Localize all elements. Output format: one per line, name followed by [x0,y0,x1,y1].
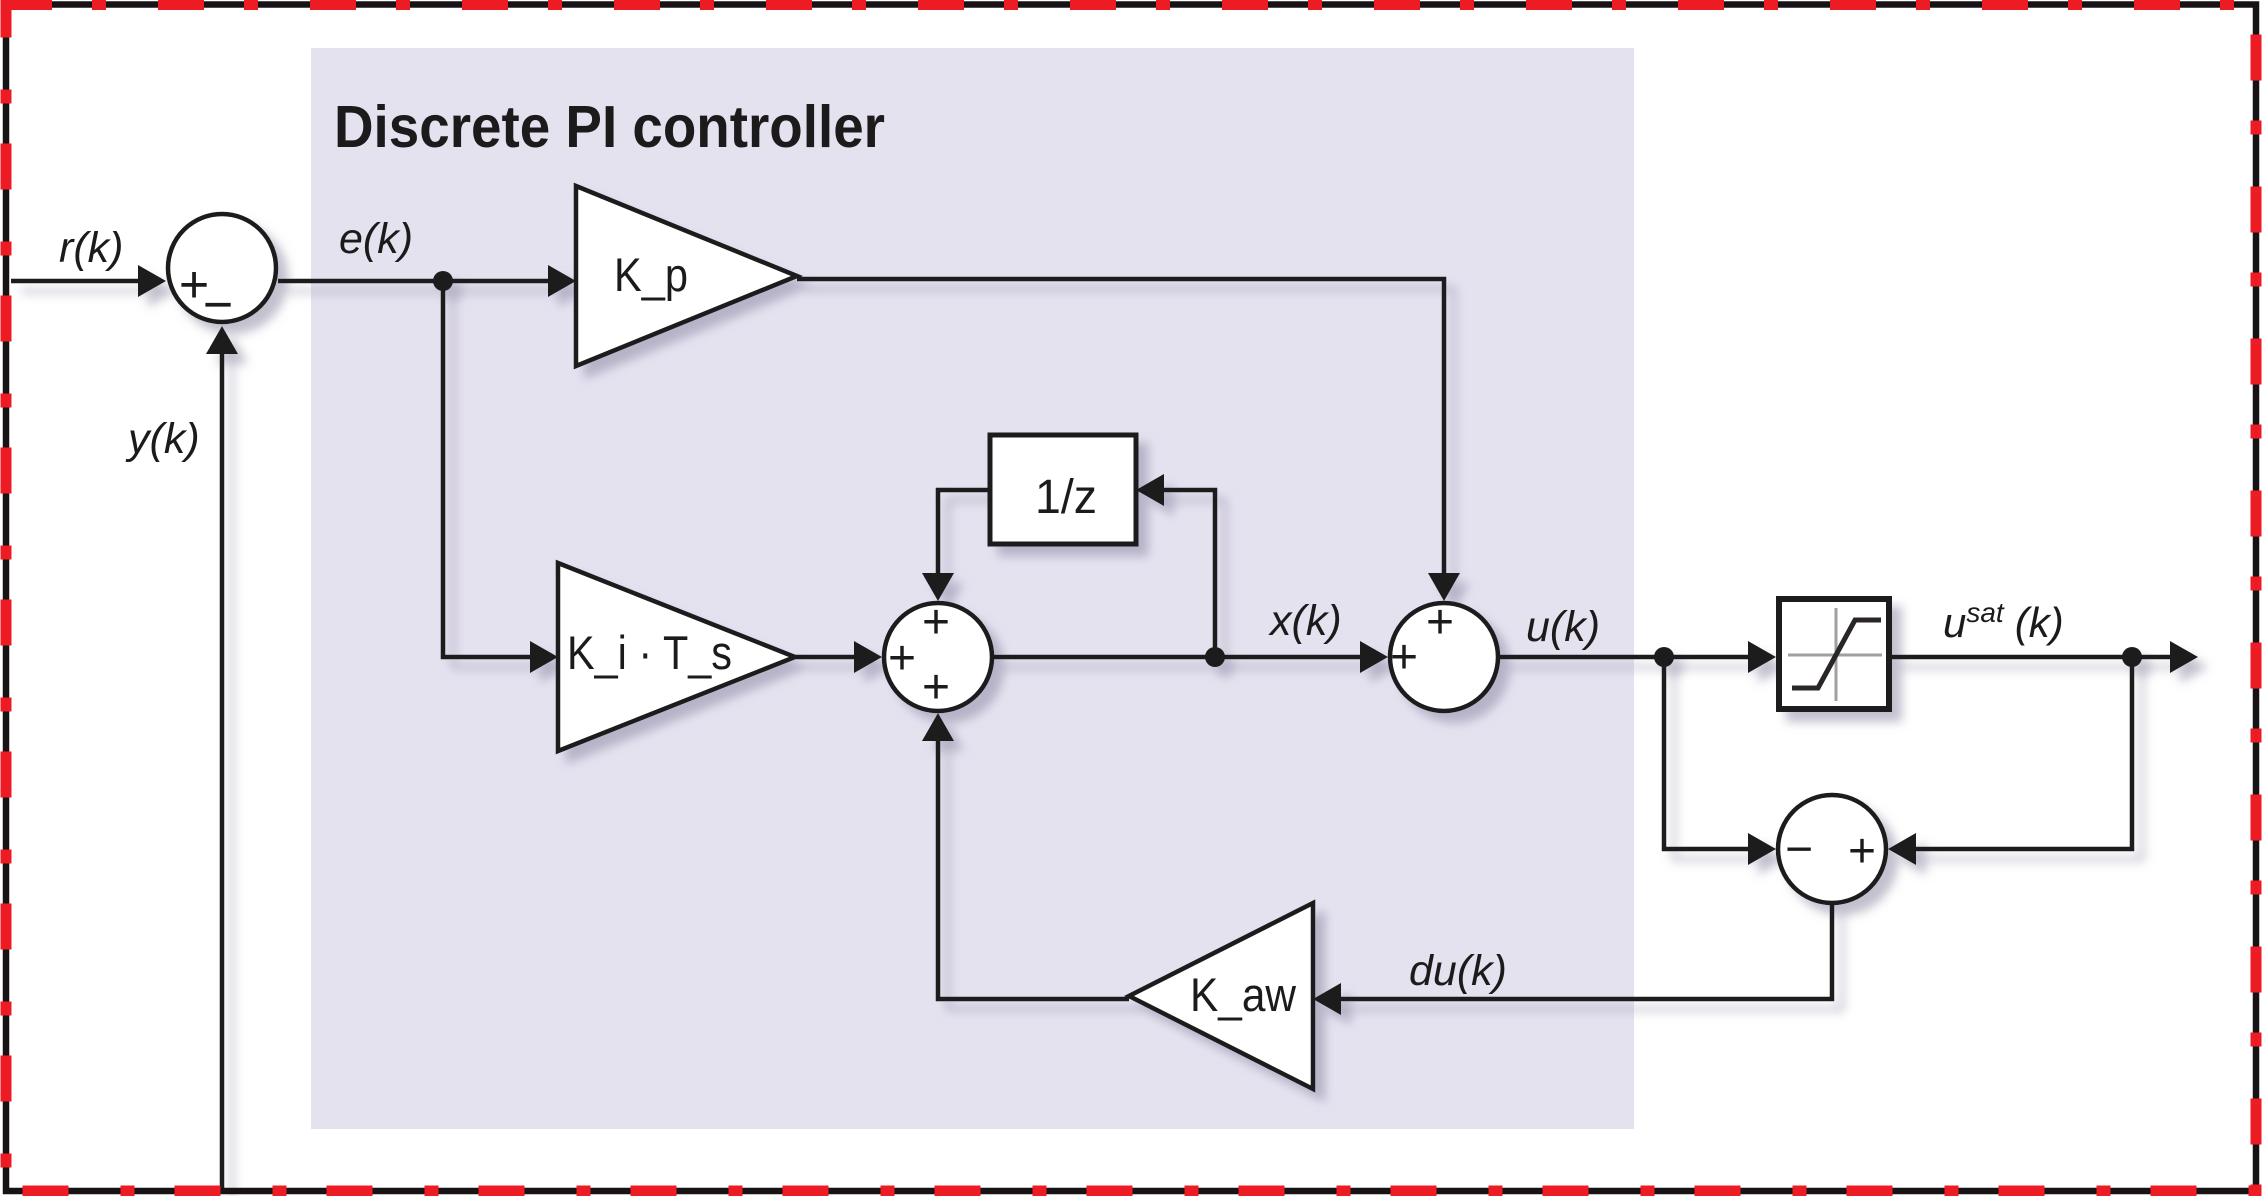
svg-text:e(k): e(k) [339,215,413,263]
wire u(k) from sum S3 to saturation [1498,655,1750,660]
node x(k) junction [1205,647,1225,667]
wire K_i output to sum S2 [795,655,854,660]
wire saturation output usat(k) [1890,655,2170,660]
svg-text:1/z: 1/z [1035,471,1097,524]
wire K_aw output to sum S2 bottom [938,741,1129,999]
svg-text:K_aw: K_aw [1190,968,1297,1021]
wire x(k) from sum S2 to sum S3 [994,655,1360,660]
wire e(k) branch down to K_i [443,281,530,657]
wire y(k) feedback [220,354,225,1188]
saturation block [1779,599,1889,709]
controller panel (lavender) [311,48,1634,1129]
wire r(k) input [11,279,140,284]
wire K_p output to sum S3 [797,279,1444,573]
svg-text:+: + [1390,631,1418,684]
wire u(k) branch down to sum S4 minus input [1664,657,1748,849]
delay 1/z [990,435,1136,544]
wire du(k) from sum S4 to gain K_aw [1340,905,1832,999]
saturation curve [1792,620,1881,688]
sum S3 (u) [1390,603,1498,711]
svg-text:+: + [888,632,916,685]
sum S4 (difference) [1778,795,1886,903]
sum S1 (error) [168,214,276,322]
svg-text:+: + [1426,596,1454,649]
svg-text:+: + [1848,825,1876,878]
wire usat branch down to sum S4 plus input [1916,657,2132,849]
svg-text:r(k): r(k) [59,224,123,272]
svg-text:K_i · T_s: K_i · T_s [567,626,732,679]
gain K_aw [1129,903,1313,1089]
svg-text:du(k): du(k) [1409,947,1507,995]
saturation block interior axes [1835,608,1838,701]
svg-text:−: − [1785,823,1813,876]
svg-text:K_p: K_p [614,248,688,301]
svg-text:y(k): y(k) [125,415,200,463]
svg-text:x(k): x(k) [1268,597,1342,645]
gain K_i T_s [558,563,795,751]
svg-text:+: + [922,596,950,649]
node usat junction [2122,647,2142,667]
svg-text:−: − [203,276,233,334]
sum S2 (integrator) [884,603,992,711]
wire delay 1/z output to sum S2 top [938,490,990,573]
svg-text:Discrete PI controller: Discrete PI controller [334,94,885,160]
wire e(k) from sum S1 to gain K_p [278,279,550,284]
node u(k) junction [1654,647,1674,667]
gain K_p [576,186,797,366]
svg-text:+: + [922,661,950,714]
wire x(k) branch up to delay 1/z input [1164,490,1215,657]
svg-text:u(k): u(k) [1526,603,1600,651]
node e(k) junction [433,271,453,291]
